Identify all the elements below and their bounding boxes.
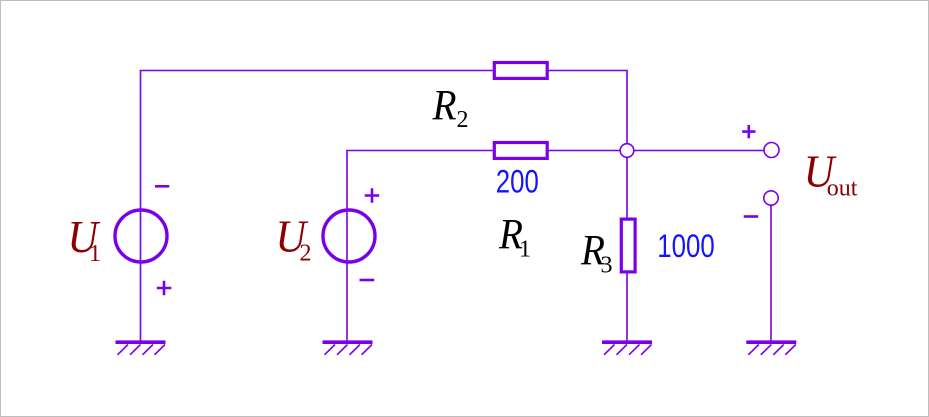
label Uout (output voltage)	[804, 147, 858, 202]
svg-text:R: R	[432, 83, 457, 130]
svg-text:out: out	[827, 176, 858, 202]
polarity mark: plus below U1	[157, 281, 172, 296]
label U2 (source name)	[276, 212, 312, 267]
ground (U2)	[323, 342, 373, 355]
wire: U1 branch up, top horizontal run, down to node column	[141, 71, 628, 341]
resistor R3 (vertical box)	[621, 219, 635, 272]
svg-text:1: 1	[89, 241, 101, 267]
svg-text:2: 2	[300, 240, 312, 266]
voltage source U2 (circle)	[323, 210, 375, 262]
resistor R1 (box on middle wire)	[494, 143, 547, 159]
polarity mark: minus below U2	[360, 279, 375, 282]
node (junction circle)	[620, 144, 634, 158]
polarity mark: plus above U2	[365, 188, 380, 203]
svg-text:1: 1	[519, 236, 531, 262]
svg-text:200: 200	[496, 164, 539, 200]
label R1	[498, 211, 531, 262]
svg-text:1000: 1000	[657, 228, 715, 264]
resistor R2 (box on top wire)	[494, 63, 547, 79]
polarity mark: minus above U1	[155, 185, 169, 188]
polarity mark: plus at output terminal	[742, 125, 755, 138]
ground (R3)	[602, 342, 652, 355]
terminal - (open circle)	[764, 191, 778, 205]
label R3	[580, 228, 612, 279]
polarity mark: minus at output terminal	[744, 215, 759, 218]
label U1 (source name)	[68, 212, 102, 267]
svg-text:3: 3	[601, 253, 613, 279]
svg-text:2: 2	[457, 107, 469, 133]
voltage source U1 (circle)	[115, 210, 167, 262]
wire: - terminal down to ground	[770, 206, 772, 341]
wire: U2 branch up, middle horizontal run to + terminal	[347, 151, 764, 341]
terminal + (open circle)	[764, 143, 779, 158]
ground (output)	[746, 342, 796, 355]
label R2	[432, 83, 469, 134]
ground (U1)	[116, 342, 166, 355]
